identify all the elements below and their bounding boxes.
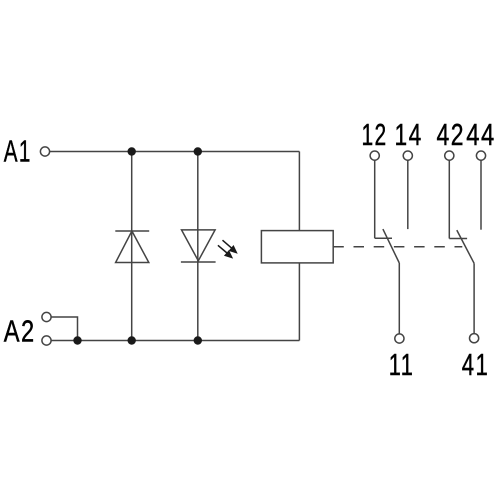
- terminal A2 upper: [42, 312, 51, 321]
- wire bottom rail A2 to coil: [51, 340, 299, 342]
- wire top rail A1 to coil: [50, 151, 300, 153]
- contact 1: fixed contact tick 12: [375, 237, 392, 239]
- svg-text:A2: A2: [4, 314, 36, 349]
- junction A2 jumper: [73, 336, 81, 344]
- terminal 41: [470, 334, 479, 343]
- junction bottom rail / diode: [128, 336, 136, 344]
- svg-text:12: 12: [362, 117, 388, 152]
- diode D triangle: [116, 231, 149, 263]
- wire coil top: [298, 152, 300, 231]
- svg-text:14: 14: [395, 117, 423, 152]
- LED emission arrow upper: [223, 240, 237, 252]
- contact 1: wire from terminal 14: [407, 160, 409, 229]
- terminal 14: [403, 151, 412, 160]
- contact 1: wire from terminal 12: [374, 160, 376, 238]
- wire coil bottom: [298, 263, 300, 341]
- wire LED branch: [197, 152, 199, 341]
- junction bottom rail / LED: [194, 336, 202, 344]
- contact 1: moving contact diagonal: [383, 229, 399, 263]
- terminal 11: [395, 334, 404, 343]
- junction top rail / diode: [128, 147, 136, 155]
- contact 2: moving contact diagonal: [457, 230, 474, 263]
- contact 2: fixed contact tick 42: [449, 238, 467, 240]
- terminal A1: [40, 147, 49, 156]
- svg-text:11: 11: [389, 347, 415, 382]
- terminal A2 lower: [42, 336, 51, 345]
- contact 1: wire to terminal 11: [398, 263, 400, 334]
- mechanical link dashed line: [333, 246, 462, 248]
- LED emission arrow lower: [218, 245, 232, 257]
- svg-text:42: 42: [437, 117, 466, 152]
- svg-text:41: 41: [462, 347, 490, 382]
- diode D (suppressor) cathode bar: [115, 230, 149, 232]
- wire diode branch: [131, 152, 133, 341]
- terminal 12: [370, 151, 379, 160]
- junction top rail / LED: [194, 147, 202, 155]
- wire A2 upper jumper: [51, 317, 77, 341]
- LED triangle: [182, 230, 216, 261]
- LED cathode bar: [181, 261, 216, 263]
- contact 2: wire from terminal 44: [480, 160, 482, 229]
- svg-text:44: 44: [466, 117, 496, 152]
- contact 2: wire from terminal 42: [448, 160, 450, 238]
- relay coil K rectangle: [261, 231, 333, 263]
- contact 2: wire to terminal 41: [473, 263, 475, 333]
- svg-text:A1: A1: [4, 134, 32, 169]
- terminal 44: [476, 151, 485, 160]
- terminal 42: [445, 151, 454, 160]
